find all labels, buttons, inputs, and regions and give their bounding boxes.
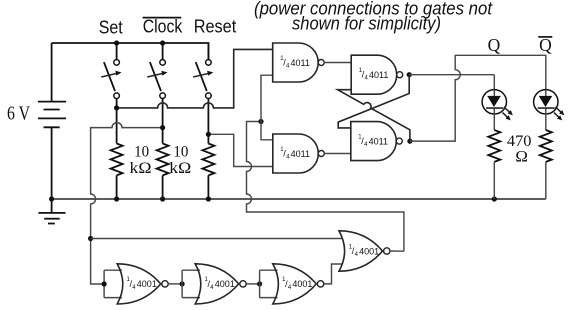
ground [38, 199, 65, 224]
wire U3 output to U4 input B [324, 153, 351, 155]
LED D1 (Q indicator) [482, 75, 513, 130]
resistor R2 10k (Clock pulldown) [157, 144, 169, 176]
svg-text:Q: Q [488, 35, 501, 55]
wire Set column down [116, 99, 118, 144]
note: power connections caption [254, 0, 493, 34]
svg-text:shown for simplicity): shown for simplicity) [292, 14, 441, 34]
svg-text:10: 10 [173, 144, 188, 161]
svg-text:4011: 4011 [369, 70, 388, 80]
NAND gate U1 1/4 4011 [273, 43, 325, 82]
resistor R1 10k (Set pulldown) [111, 144, 123, 176]
NOR gate U8 1/4 4001 (pulse shaper) [339, 231, 390, 271]
wire ground rail [52, 198, 546, 200]
svg-text:10: 10 [134, 144, 149, 161]
svg-text:6 V: 6 V [7, 103, 30, 125]
NAND gate U4 1/4 4011 (latch bottom) [351, 122, 403, 161]
wire U7 output to U8 input B (step up) [324, 264, 342, 284]
svg-text:4011: 4011 [369, 136, 388, 146]
switch Clock (pushbutton) [147, 43, 167, 98]
junction rail R2 [160, 196, 165, 201]
NOR gate U6 1/4 4001 (delay chain 2) [182, 264, 246, 304]
value label 470 Ohm [507, 133, 532, 165]
NOR gate U7 1/4 4001 (delay chain 3) [260, 264, 324, 304]
wire U4 output to node Qbar via top run (vertical hops over Q wire) [410, 55, 546, 141]
svg-text:kΩ: kΩ [169, 160, 191, 177]
LED D2 (Qbar indicator) [534, 90, 565, 130]
value label 10 kOhm (R1) [130, 144, 152, 178]
junction rail R1 [114, 196, 119, 201]
resistor R5 470 (Qbar LED) [540, 130, 552, 199]
svg-text:4001: 4001 [215, 279, 235, 289]
NAND gate U3 1/4 4011 [273, 134, 325, 173]
NAND gate U2 1/4 4011 (latch top) [351, 55, 403, 94]
resistor R4 470 (Q LED) [488, 130, 500, 199]
svg-text:4011: 4011 [291, 58, 310, 68]
node Qbar label (with overbar) [538, 35, 552, 55]
wire U2 output to LED1 (node Q) [409, 74, 494, 76]
wire Clock tap to delay chain (hop over Set column) [88, 123, 165, 284]
wire node C to U8 input A [91, 238, 342, 240]
wire U8 output to feedback vertical [390, 250, 404, 252]
resistor R3 10k (Reset pulldown) [202, 144, 214, 176]
svg-text:Ω: Ω [515, 149, 528, 166]
wire Reset column down [207, 99, 209, 144]
svg-text:4001: 4001 [137, 279, 157, 289]
svg-text:Set: Set [99, 18, 123, 38]
wire U1 output to U2 input A [324, 62, 351, 64]
wire U6 output to U7 input [246, 281, 262, 286]
junction rail LED1 resistor [492, 196, 497, 201]
wire U5 output to U6 input [168, 281, 185, 286]
junction top rail Set [114, 40, 119, 45]
wire cross-couple U4 output to U2 input B [338, 90, 410, 141]
svg-text:4001: 4001 [292, 279, 312, 289]
svg-text:Reset: Reset [194, 17, 237, 37]
svg-text:kΩ: kΩ [130, 160, 152, 177]
wire Clock column down [162, 99, 164, 144]
NOR gate U5 1/4 4001 (delay chain 1) [102, 264, 169, 304]
wire cross-couple U2 output to U4 input A (hop at crossing) [338, 75, 409, 128]
wire top positive rail [52, 43, 209, 60]
node T junction (to NAND1 input B and NAND3 input A) [258, 75, 272, 140]
svg-text:4001: 4001 [359, 246, 379, 256]
wire Reset tap to NAND3 input B [206, 132, 273, 167]
junction rail battery [49, 196, 54, 201]
svg-text:Q: Q [539, 35, 552, 55]
junction U2 output [407, 72, 412, 77]
wire feedback from NOR4 output up to node T (hops over reset wire and ground rail) [247, 122, 404, 252]
battery 6V [38, 43, 66, 199]
junction top rail Clock [160, 40, 165, 45]
switch Reset (pushbutton) [193, 43, 213, 98]
node Clock label (with overbar) [143, 17, 184, 37]
svg-text:Clock: Clock [143, 17, 183, 37]
wire Set tap to NAND1 input A (with hops over Clock and Reset columns) [114, 49, 273, 110]
switch Set (pushbutton) [101, 43, 121, 98]
svg-text:4011: 4011 [291, 149, 310, 159]
junction U4 output [407, 139, 412, 144]
junction rail R3 [206, 196, 211, 201]
value label 10 kOhm (R2) [169, 144, 191, 178]
